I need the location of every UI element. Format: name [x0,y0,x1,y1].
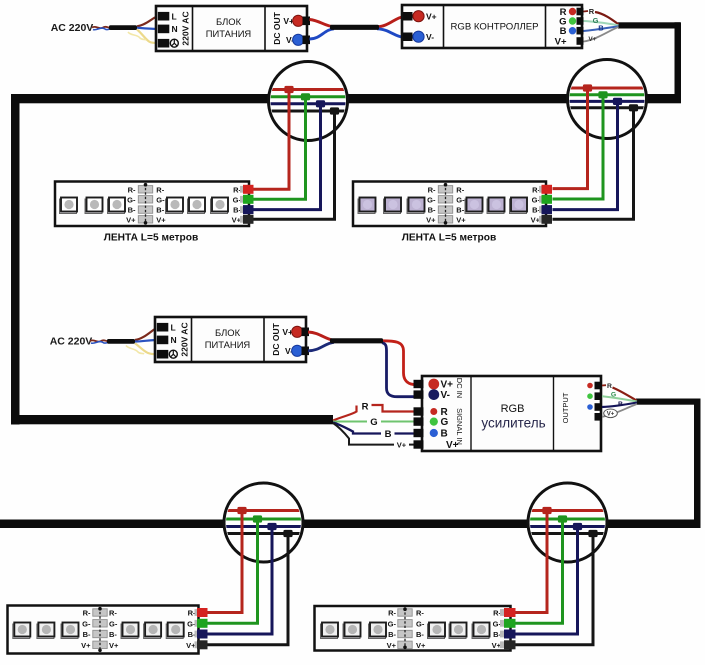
LED strip 4 (bottom-right) [315,606,511,651]
wire tap from D [515,527,578,635]
svg-text:220V AC: 220V AC [179,322,189,356]
svg-text:R: R [589,7,595,16]
cut point pads of strip 4 (bottom-right) [398,609,412,616]
svg-text:G-: G- [456,195,465,204]
wire tap from A [254,104,321,210]
wire tap from B [553,108,634,220]
svg-text:L: L [172,11,177,21]
svg-text:B-: B- [83,630,91,639]
svg-text:V+: V+ [387,641,397,650]
wire: amplifier output V+ [602,404,637,417]
wire: mains cable to PSU1 [92,27,110,29]
svg-text:V+: V+ [607,412,615,418]
wire: V+ red PSU1 to controller [310,20,335,27]
svg-text:B-: B- [428,206,436,215]
wire: amplifier output R [602,384,606,386]
wire tap from D [515,511,547,613]
svg-text:R: R [607,383,612,390]
wire: thick bus from amplifier output [636,399,701,405]
wire: signal G from bus to amplifier [333,421,367,423]
cut point pads of strip 1 (top-left) [138,186,152,193]
RGB controller U1 [402,5,584,48]
wire: thick bus bottom run [0,520,701,529]
svg-text:B: B [598,24,604,33]
svg-text:G-: G- [109,619,118,628]
wire tap from B [553,88,588,189]
svg-text:220V AC: 220V AC [180,11,190,45]
wire: signal V+ from bus to amplifier [333,423,394,445]
svg-text:БЛОК: БЛОК [215,327,241,338]
amplifier output terminals [595,382,603,390]
wire: controller output V+ [584,27,619,42]
wire tap from C [207,519,258,623]
wire: thick 4-core bus, top run [11,94,681,103]
svg-text:V+: V+ [441,380,454,391]
svg-text:B-: B- [109,630,117,639]
svg-text:DC OUT: DC OUT [272,11,282,44]
wire tap from D [515,519,563,623]
svg-text:V+: V+ [456,215,466,224]
svg-text:ПИТАНИЯ: ПИТАНИЯ [206,28,251,39]
svg-text:G-: G- [388,619,397,628]
svg-text:G-: G- [156,195,165,204]
wire: thick bus middle horizontal to amplifier [11,415,333,424]
wire: controller output G [584,21,619,25]
wire: controller output R [584,10,589,13]
svg-text:N: N [171,335,177,345]
svg-text:R-: R- [128,185,136,194]
cut point pads of strip 2 (top-right) [438,186,452,193]
svg-text:B: B [441,429,448,440]
wire: 2-core DC cable sheath [330,25,379,30]
wire tap from A [254,111,335,219]
LED strip 3 (bottom-left) [8,606,199,654]
wire: mains cable to PSU2 [90,340,108,342]
svg-text:G-: G- [127,195,136,204]
svg-text:G-: G- [82,619,91,628]
svg-text:R-: R- [428,185,436,194]
wire: V+ red PSU2 to amplifier [308,332,334,340]
wire tap from D [515,534,593,645]
wire: controller output B [584,26,619,31]
svg-text:V+: V+ [416,641,426,650]
svg-text:OUTPUT: OUTPUT [561,392,570,423]
LED chips of strip 4 (bottom-right) [321,623,339,639]
svg-text:DC OUT: DC OUT [271,322,281,355]
svg-text:B-: B- [456,206,464,215]
svg-text:B-: B- [416,630,424,639]
LED strip 1 (top-left) [55,182,249,227]
LED chips of strip 2 (top-right) [358,198,376,214]
wire tap from A [254,97,306,200]
svg-text:B-: B- [156,206,164,215]
svg-text:DC IN: DC IN [455,378,464,398]
wire tap from B [553,101,618,209]
svg-text:R: R [362,402,369,413]
svg-text:AC 220V: AC 220V [51,22,94,34]
wire tap from C [207,511,242,613]
svg-text:G: G [611,392,616,399]
wire: amplifier output G [602,396,637,401]
svg-text:G: G [441,417,449,428]
LED chips of strip 1 (top-left) [60,198,78,214]
svg-text:R-: R- [156,185,164,194]
svg-text:V+: V+ [555,37,567,48]
svg-text:AC 220V: AC 220V [50,336,93,348]
power supply PSU2 (БЛОК ПИТАНИЯ) [155,317,309,362]
svg-text:B: B [385,429,392,440]
svg-text:R-: R- [388,609,396,618]
wire tap from A [254,90,290,190]
svg-text:G-: G- [427,195,436,204]
svg-text:V+: V+ [426,12,437,22]
svg-text:усилитель: усилитель [481,416,545,431]
svg-text:N: N [172,24,178,34]
svg-text:R-: R- [456,185,464,194]
svg-text:V+: V+ [156,215,166,224]
RGB amplifier U2 (RGB усилитель) [422,376,601,451]
svg-text:V+: V+ [81,641,91,650]
wire: signal R from bus to amplifier [333,406,357,421]
svg-text:V+: V+ [426,215,436,224]
wire tap from C [207,527,272,635]
svg-text:V+: V+ [126,215,136,224]
svg-text:RGB: RGB [501,403,525,415]
svg-text:L: L [171,322,176,332]
power supply PSU1 (БЛОК ПИТАНИЯ) [156,6,310,51]
wire: thick bus vertical from controller [618,22,680,28]
amplifier input terminals [414,380,424,388]
svg-text:G-: G- [416,619,425,628]
wire: V- blue PSU1 to controller [310,29,335,39]
wire tap from C [207,534,288,645]
svg-text:RGB КОНТРОЛЛЕР: RGB КОНТРОЛЛЕР [450,22,538,33]
svg-text:V-: V- [426,32,434,42]
svg-text:ПИТАНИЯ: ПИТАНИЯ [205,339,250,350]
svg-text:V-: V- [441,390,450,401]
wire: V- navy PSU2 to amplifier [308,342,334,351]
svg-text:V+: V+ [397,441,407,450]
wire: signal B from bus to amplifier [333,423,381,434]
svg-text:B-: B- [128,206,136,215]
svg-text:V+: V+ [109,641,119,650]
svg-text:B: B [618,401,623,408]
svg-text:ЛЕНТА L=5 метров: ЛЕНТА L=5 метров [402,232,497,243]
svg-text:B-: B- [388,630,396,639]
LED strip 2 (top-right) [353,182,546,227]
wire: amplifier output B [602,403,637,408]
svg-text:SIGNAL IN: SIGNAL IN [455,408,464,445]
wire tap from B [553,95,604,199]
cut point pads of strip 3 (bottom-left) [93,609,107,616]
wire: thick bus left vertical [11,94,20,425]
svg-text:БЛОК: БЛОК [216,16,242,27]
svg-text:ЛЕНТА L=5 метров: ЛЕНТА L=5 метров [104,232,199,243]
svg-text:R-: R- [83,609,91,618]
LED chips of strip 3 (bottom-left) [13,623,31,639]
svg-text:R-: R- [109,609,117,618]
wire: 2-core DC cable sheath [330,338,383,343]
svg-text:G: G [370,417,377,428]
svg-text:R-: R- [416,609,424,618]
svg-text:V+: V+ [588,36,596,43]
